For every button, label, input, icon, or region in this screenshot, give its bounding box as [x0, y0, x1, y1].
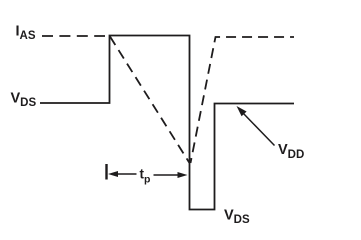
svg-text:IAS: IAS [16, 24, 36, 43]
svg-text:VDS: VDS [224, 208, 250, 227]
svg-text:tp: tp [140, 167, 151, 186]
svg-text:VDS: VDS [11, 91, 37, 109]
svg-text:VDD: VDD [278, 142, 304, 161]
